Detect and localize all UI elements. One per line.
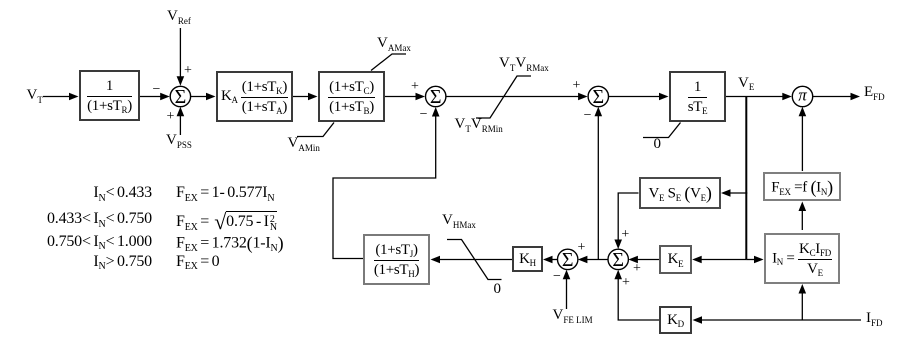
svg-text:Σ: Σ	[430, 86, 442, 108]
svg-text:π: π	[798, 86, 807, 105]
svg-text:Σ: Σ	[562, 249, 574, 271]
svg-text:Σ: Σ	[592, 86, 604, 108]
svg-text:Σ: Σ	[175, 86, 187, 108]
svg-text:Σ: Σ	[612, 249, 624, 271]
